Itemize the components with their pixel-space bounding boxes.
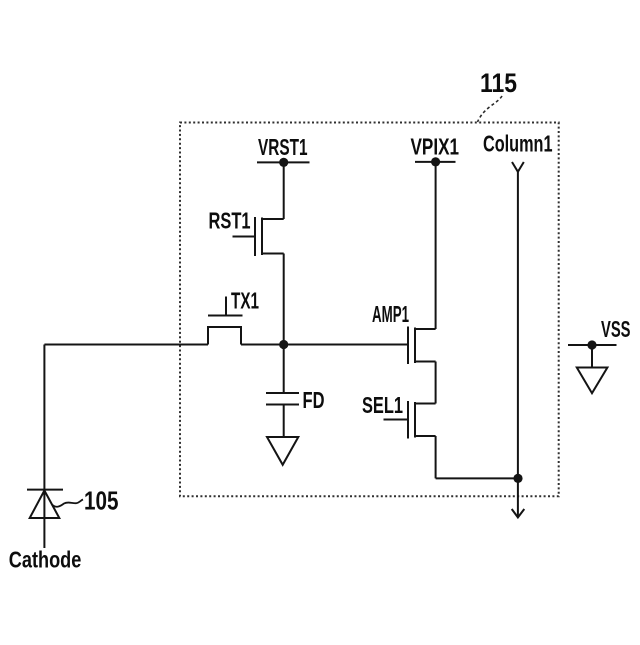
node dot Column1 junction bbox=[513, 474, 522, 483]
svg-text:VPIX1: VPIX1 bbox=[411, 134, 460, 160]
wire AMP1 source to SEL1 drain bbox=[435, 362, 437, 404]
svg-text:115: 115 bbox=[480, 68, 517, 98]
VSS terminal bar bbox=[568, 344, 617, 346]
svg-text:VRST1: VRST1 bbox=[258, 134, 308, 160]
node dot VSS bbox=[587, 340, 596, 349]
node dot VRST1 bbox=[279, 158, 288, 167]
svg-text:TX1: TX1 bbox=[231, 288, 259, 314]
transfer gate TX1 (bump) bbox=[208, 327, 241, 345]
wire capacitor to ground bbox=[283, 405, 285, 438]
leader line from 115 to box bbox=[478, 96, 503, 122]
svg-text:105: 105 bbox=[84, 486, 119, 516]
wire TX1 to AMP1 gate bbox=[241, 344, 408, 346]
capacitor FD bbox=[266, 393, 299, 405]
transistor SEL1 bbox=[384, 401, 436, 439]
transistor RST1 bbox=[233, 217, 284, 256]
Column1 bottom arrowhead bbox=[512, 509, 525, 517]
wire photodiode branch vertical bbox=[43, 345, 45, 549]
svg-text:SEL1: SEL1 bbox=[362, 392, 403, 418]
ground VSS bbox=[577, 368, 608, 394]
node dot VPIX1 bbox=[431, 157, 440, 166]
photodiode 105 triangle bbox=[30, 491, 60, 519]
wire RST1 source to FD node bbox=[283, 254, 285, 345]
svg-text:FD: FD bbox=[303, 387, 325, 413]
svg-text:Cathode: Cathode bbox=[9, 547, 82, 573]
wire left segment to photodiode branch bbox=[44, 344, 208, 346]
photodiode 105 cathode bar bbox=[27, 489, 63, 491]
VRST1 supply bar bbox=[257, 161, 310, 163]
svg-text:RST1: RST1 bbox=[209, 208, 251, 234]
svg-text:VSS: VSS bbox=[601, 316, 631, 342]
ground under FD bbox=[267, 437, 298, 465]
wire FD node down to capacitor bbox=[283, 345, 285, 394]
node FD junction dot bbox=[279, 340, 288, 349]
Column1 top open arrow bbox=[512, 162, 524, 172]
TX1 gate line bbox=[208, 315, 243, 317]
wire Column1 vertical line bbox=[517, 172, 519, 517]
wire VSS stub bbox=[591, 345, 593, 368]
svg-text:Column1: Column1 bbox=[483, 131, 553, 157]
wire VPIX1 to AMP1 drain bbox=[435, 162, 437, 329]
leader squiggle to 105 bbox=[52, 500, 83, 507]
svg-text:AMP1: AMP1 bbox=[372, 301, 409, 327]
TX1 gate tick bbox=[225, 297, 227, 316]
pixel cell boundary box 115 (dashed) bbox=[180, 123, 559, 497]
VPIX1 supply bar bbox=[415, 161, 456, 163]
wire VRST1 to RST1 drain bbox=[283, 162, 285, 219]
wire SEL1 source down bbox=[435, 436, 437, 478]
wire SEL1 to Column1 line bbox=[436, 477, 518, 479]
transistor AMP1 bbox=[408, 327, 436, 365]
